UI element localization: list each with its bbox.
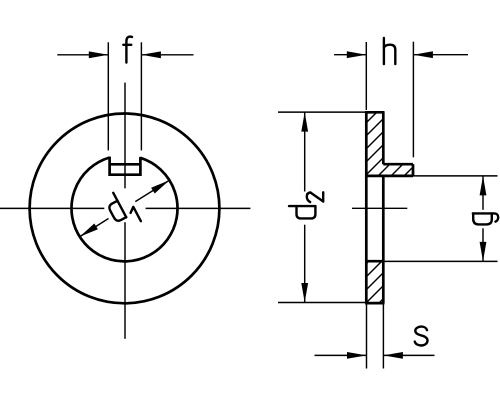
f extension line right: [140, 42, 142, 150]
f extension line left: [107, 42, 109, 150]
d1 arrow upper-right: [151, 177, 171, 193]
centerline vertical: [124, 83, 126, 339]
d2 arrow up: [301, 112, 308, 132]
f label: [123, 37, 132, 63]
d2 extension line top: [278, 111, 366, 113]
hole bottom edge: [365, 260, 384, 263]
h dimension left arrow: [334, 51, 366, 58]
tab (nose): [110, 157, 141, 175]
tab bend line: [110, 163, 141, 166]
section centerline: [352, 207, 407, 209]
d2 dimension line: [304, 112, 306, 302]
section outline: bottom edge: [365, 302, 384, 305]
g label: [473, 213, 498, 224]
h extension line left: [365, 42, 367, 110]
s dimension left arrow: [315, 352, 367, 359]
d2 extension line bottom: [278, 302, 366, 304]
s dimension right arrow: [383, 352, 434, 359]
d1 dimension line: [80, 180, 170, 236]
centerline horizontal: [0, 207, 250, 209]
f dimension line left arrow: [57, 51, 108, 58]
f dimension line right arrow: [141, 51, 193, 58]
d2 arrow down: [301, 283, 308, 303]
g arrow down: [480, 242, 487, 262]
s label: [415, 327, 428, 346]
d1 label: [104, 188, 141, 232]
section outline: top edge: [365, 111, 384, 114]
section outline: left edge: [365, 112, 368, 303]
s extension line right: [382, 305, 384, 369]
hatching upper section: [354, 100, 493, 194]
tab top edge: [383, 163, 413, 166]
h dimension right arrow: [413, 51, 468, 58]
g arrow up: [480, 176, 487, 196]
section outline: right edge lower: [382, 176, 385, 303]
h label: [384, 38, 395, 64]
plate end / tab bottom edge: [365, 175, 413, 178]
section outline: right edge upper: [382, 112, 385, 164]
g dimension line: [482, 176, 484, 262]
g extension line bottom: [383, 260, 497, 262]
h extension line right: [412, 42, 414, 158]
inner circle (gap at top for tab): [72, 158, 178, 262]
d1 arrow lower-left: [78, 223, 98, 239]
s extension line left: [366, 305, 368, 369]
hatching lower section: [356, 238, 444, 320]
tab right end: [412, 164, 415, 176]
outer circle: [30, 113, 220, 303]
d2 label: [289, 192, 323, 218]
g extension line top: [413, 175, 498, 177]
